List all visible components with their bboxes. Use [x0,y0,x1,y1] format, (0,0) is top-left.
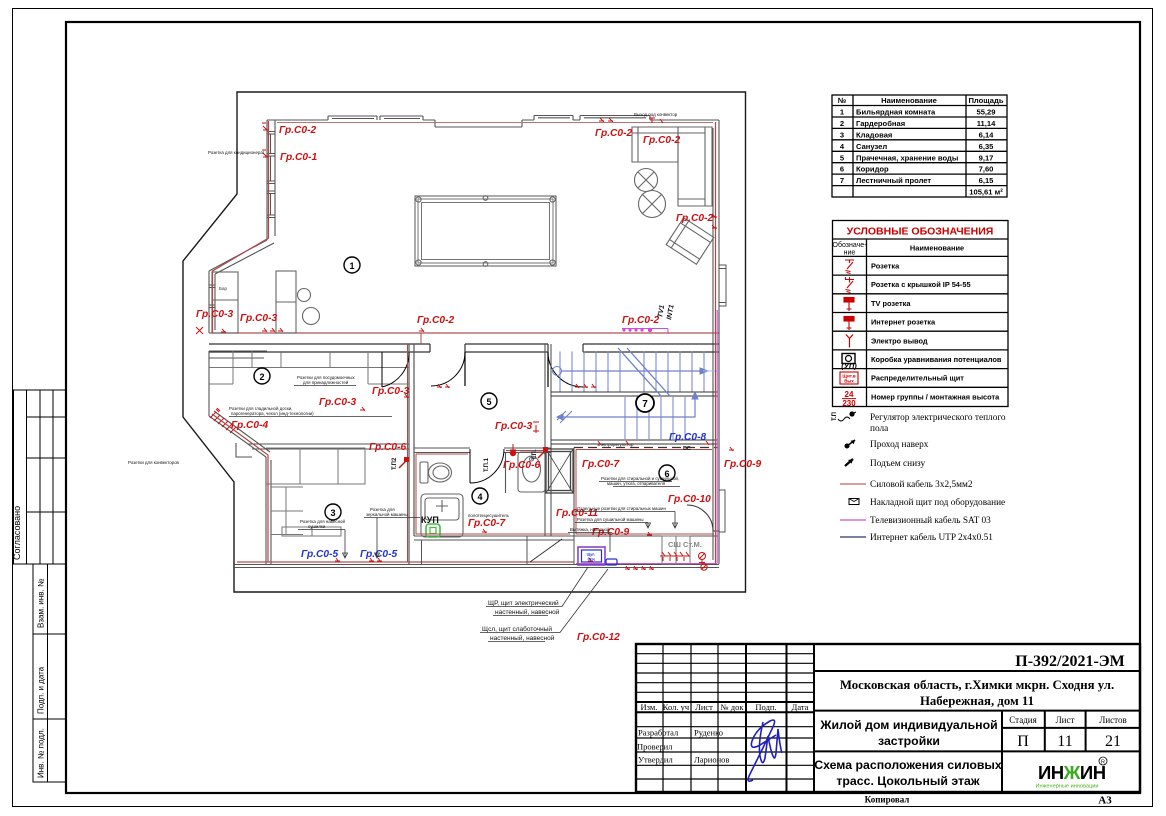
svg-text:Санузел: Санузел [856,142,887,151]
svg-text:9,17: 9,17 [979,153,994,162]
svg-text:Т.П: Т.П [832,412,838,421]
svg-text:№: № [838,96,846,105]
red group labels [196,125,761,643]
svg-text:Гр.С0-10: Гр.С0-10 [668,494,711,505]
annotation underlines [229,386,680,559]
stairs upper flight [553,348,718,396]
svg-text:1: 1 [349,261,354,271]
TP2 regulator hall [392,457,409,470]
svg-text:Проход наверх: Проход наверх [870,440,929,450]
door hall-bathroom [470,449,504,483]
svg-text:Розетка для кондиционера!: Розетка для кондиционера! [208,150,264,155]
red ticks under machines [625,566,654,570]
symbol socket IP54 [845,277,854,293]
svg-text:ИНЖИН: ИНЖИН [1038,762,1106,783]
svg-text:6,15: 6,15 [979,176,995,185]
svg-text:Гр.С0-6: Гр.С0-6 [503,460,540,471]
bath [518,452,545,492]
svg-text:зеркальной машины: зеркальной машины [366,512,408,517]
arrow rise icon [845,459,853,466]
svg-text:для принадлежностей: для принадлежностей [303,380,349,385]
red cable bathroom [416,451,570,535]
red cable corridor6 [576,450,714,535]
hallway door leaf [530,539,562,562]
svg-text:6,35: 6,35 [979,142,995,151]
svg-text:Гр.С0-2: Гр.С0-2 [595,128,632,139]
svg-text:Распределительный щит: Распределительный щит [871,374,964,383]
svg-text:настенный, навесной: настенный, навесной [495,608,560,616]
svg-text:Розетка для сушильной машины: Розетка для сушильной машины [577,517,644,522]
door billiard-stairs [548,352,583,387]
regulator icon [832,411,856,421]
svg-text:Коробка уравнивания потенциало: Коробка уравнивания потенциалов [871,355,1002,364]
room3 shelving [266,448,365,536]
stairs lower flight [557,392,698,439]
svg-text:Розетка с крышкой IP 54-55: Розетка с крышкой IP 54-55 [871,280,971,289]
svg-text:230: 230 [842,399,856,408]
svg-text:Вытяжка, навесной: Вытяжка, навесной [570,527,610,532]
symbol electro out [846,335,853,348]
svg-text:Силовой кабель 3х2,5мм2: Силовой кабель 3х2,5мм2 [870,479,973,490]
red cable wall rooms23-hall [407,344,409,562]
door hall-room2 [382,352,409,387]
svg-text:Щсл, щит слаботочный: Щсл, щит слаботочный [482,625,552,633]
svg-text:парогенератора, чехол (инд-тех: парогенератора, чехол (инд-технологии) [231,411,314,416]
sublegend [870,413,1006,543]
svg-text:Кол. уч: Кол. уч [663,702,690,712]
svg-text:Обозначе-: Обозначе- [833,241,868,249]
symbol internet socket [844,317,854,331]
svg-text:Гр.С0-12: Гр.С0-12 [577,632,620,643]
svg-text:Т.П.1: Т.П.1 [484,457,490,472]
red cable vert from billiard bottom [420,333,422,344]
svg-text:трасс. Цокольный этаж: трасс. Цокольный этаж [836,774,979,788]
bathroom bottom wall [414,536,718,540]
svg-text:Инв. № подл.: Инв. № подл. [37,728,46,778]
room2 diagonal wall [209,411,270,457]
svg-text:7: 7 [642,399,648,410]
svg-text:Гр.С0-2: Гр.С0-2 [676,213,713,224]
svg-text:Гр.С0-2: Гр.С0-2 [417,315,454,326]
wall hall-bathroom2 [545,344,551,536]
svg-text:ЩР, щит электрический: ЩР, щит электрический [488,599,559,607]
svg-text:Гр.С0-3: Гр.С0-3 [196,309,233,320]
room3 circle [325,504,341,520]
round table 1 [635,169,658,192]
svg-text:П-392/2021-ЭМ: П-392/2021-ЭМ [1015,653,1125,670]
svg-text:Гр.С0-9: Гр.С0-9 [724,459,761,470]
svg-text:Номер группы / монтажная высот: Номер группы / монтажная высота [871,392,1000,401]
svg-text:Коридор: Коридор [856,165,889,174]
blue group labels [301,432,706,560]
svg-text:Листов: Листов [1099,715,1126,725]
room3 left wall [266,457,271,565]
building bottom wall [234,562,719,568]
logo INZHIN [1036,757,1107,790]
svg-text:Гр.С0-2: Гр.С0-2 [643,135,680,146]
KUP green box [421,515,440,537]
cupboard [276,271,296,333]
room2 bottom wall [248,444,409,449]
svg-text:Схема расположения силовых: Схема расположения силовых [814,758,1002,772]
svg-text:5: 5 [840,153,845,162]
red cable right wall [715,122,717,563]
bay diagonal wall [209,240,274,274]
svg-text:Регулятор электрического тепло: Регулятор электрического теплого [870,413,1006,423]
billiard top wall [267,116,719,128]
svg-text:Ларионов: Ларионов [694,755,729,765]
socket strip SSh [660,552,690,561]
svg-text:А3: А3 [1098,795,1112,807]
mount board icon [849,499,859,505]
svg-text:Руденко: Руденко [694,728,723,738]
sofa L [632,127,712,206]
svg-text:Выход под конвектор: Выход под конвектор [634,112,678,117]
TV1 INT1 vertical [657,304,676,320]
svg-text:Щуп.: Щуп. [587,553,596,557]
symbol group number [842,390,856,408]
red cable top wall [277,122,713,124]
svg-text:5: 5 [486,397,491,407]
svg-text:Инженерные инновации: Инженерные инновации [1036,784,1099,790]
billiard right wall [713,120,719,564]
building outer contour [183,92,746,592]
magenta tv dots [622,328,652,332]
svg-text:3: 3 [330,508,335,518]
magenta cable right wall [576,310,717,564]
svg-text:Телевизионный кабель SAT 03: Телевизионный кабель SAT 03 [870,515,991,526]
svg-text:пола: пола [870,424,888,434]
red slash circle [701,564,707,570]
navy cable right wall [718,312,720,561]
svg-text:Электро вывод: Электро вывод [871,336,928,345]
svg-text:6: 6 [840,165,844,174]
svg-text:Согласовано: Согласовано [12,506,22,560]
TP2 regulator room6 [532,447,548,460]
symbol TV socket [844,298,854,312]
svg-text:П: П [1017,733,1029,750]
svg-text:ВС: ВС [683,446,691,452]
svg-text:INT1: INT1 [666,304,676,320]
svg-text:(УП): (УП) [841,362,857,371]
svg-text:Площадь: Площадь [968,96,1003,105]
right niche [719,490,725,532]
signature [748,720,782,781]
svg-text:4: 4 [840,142,845,151]
tv cable swatch [840,519,866,521]
svg-text:Интернет розетка: Интернет розетка [871,318,936,327]
svg-text:Гр.С0-8: Гр.С0-8 [669,432,706,443]
room3 wall notch [236,443,252,457]
right wall door arc room6 [687,505,719,531]
red dot hall [510,450,516,456]
svg-text:1: 1 [840,108,845,117]
svg-text:№ док: № док [721,702,745,712]
svg-text:Утвердил: Утвердил [638,755,673,765]
svg-text:ние: ние [844,250,856,257]
svg-text:Гр.С0-3: Гр.С0-3 [240,313,277,324]
svg-text:застройки: застройки [878,734,940,748]
symbol distrib board [840,372,858,384]
wall rooms23-hall [409,344,414,565]
svg-text:Прачечная, хранение воды: Прачечная, хранение воды [856,153,958,162]
svg-text:Подп.: Подп. [755,702,776,712]
svg-text:Гр.С0-4: Гр.С0-4 [231,420,268,431]
svg-text:полотенцесушитель: полотенцесушитель [468,513,510,518]
svg-text:Эт.ц: Эт.ц [587,557,595,561]
bottom panel leader texts [482,599,560,642]
panel small box [606,559,617,565]
svg-text:Гр.С0-3: Гр.С0-3 [372,386,409,397]
red cable left wall [213,121,269,333]
stairwell walls [551,392,718,396]
svg-text:Отдельные розетки для стиральн: Отдельные розетки для стиральных машин [577,506,666,511]
stool 1 [298,289,311,302]
room4 circle [472,488,488,504]
wall bathroom-bathniche [505,452,507,493]
svg-text:Лист: Лист [1056,715,1075,725]
svg-text:R: R [1101,760,1105,766]
bathroom top wall [414,448,551,453]
svg-text:Розетки для конвекторов: Розетки для конвекторов [128,460,180,465]
internet cable swatch [840,536,866,538]
TITLEBLOCK [636,644,1140,807]
svg-text:Т.П2: Т.П2 [392,457,398,470]
svg-text:Стадия: Стадия [1009,715,1036,725]
round table 2 [639,191,666,218]
FLOORPLAN [128,92,761,643]
door billiard-hall [431,352,465,386]
room2 left wall [209,351,267,416]
arrow up icon [845,440,855,448]
svg-text:2: 2 [259,372,264,382]
svg-text:24: 24 [845,390,854,399]
svg-text:Гр.С0-2: Гр.С0-2 [279,125,316,136]
svg-text:настенный, навесной: настенный, навесной [490,634,555,642]
socket ticks [196,118,734,562]
svg-text:2: 2 [840,119,844,128]
svg-text:Гардеробная: Гардеробная [856,119,905,128]
svg-text:11,14: 11,14 [977,119,996,128]
svg-text:Гр.С0-3: Гр.С0-3 [319,397,356,408]
red hatch Gr.C0-4 [210,408,236,433]
svg-text:СШ Ст.М.: СШ Ст.М. [668,540,702,549]
svg-text:Копировал: Копировал [865,795,910,805]
room6 circle [659,465,675,481]
power cable swatch [840,483,866,485]
shower [546,449,573,493]
svg-text:Гр.С0-6: Гр.С0-6 [369,442,406,453]
svg-text:Гр.С0-7: Гр.С0-7 [582,459,620,470]
room1 circle [344,257,360,273]
LEGEND [832,221,1008,544]
red vent symbol [699,553,706,564]
svg-text:7: 7 [840,176,844,185]
svg-text:Наименование: Наименование [910,244,964,253]
svg-text:Жилой дом индивидуальной: Жилой дом индивидуальной [819,718,997,732]
room7 circle [636,394,654,412]
annotation texts [128,112,679,532]
svg-text:электрорегулятор: электрорегулятор [597,442,634,447]
svg-text:Проверил: Проверил [637,742,673,752]
svg-text:Набережная, дом 11: Набережная, дом 11 [920,694,1034,708]
svg-text:Гр.С0-3: Гр.С0-3 [495,421,532,432]
svg-text:TV розетка: TV розетка [871,299,911,308]
svg-text:Кладовая: Кладовая [856,130,892,139]
svg-text:Т.П.: Т.П. [532,449,538,460]
toilet [420,462,452,483]
bar counter [212,272,238,333]
svg-text:Московская область, г.Химки м: Московская область, г.Химки мкрн. Сходня… [840,678,1114,692]
red cable room2 diagonal [212,414,268,562]
corridor6 top dashed wall [574,447,718,449]
billiard table [415,196,556,267]
wardrobe shelving top [209,351,409,384]
svg-text:Подп. и дата: Подп. и дата [37,666,46,714]
panel Shchsl blue box [578,547,605,565]
svg-text:сушилки: сушилки [308,524,326,529]
svg-text:КУП: КУП [421,515,439,525]
washing machines [662,536,690,564]
svg-text:TV1: TV1 [657,304,666,318]
svg-text:105,61 м²: 105,61 м² [969,188,1003,197]
bay left wall [209,271,215,333]
svg-text:Гр.С0-1: Гр.С0-1 [280,152,317,163]
symbol socket [845,260,854,274]
right window [719,265,726,306]
svg-text:3: 3 [840,130,844,139]
armchair [666,218,714,264]
svg-text:Накладной щит под оборудование: Накладной щит под оборудование [870,497,1005,508]
svg-text:11: 11 [1057,733,1072,750]
svg-text:Бильярдная комната: Бильярдная комната [856,108,936,117]
svg-text:7,60: 7,60 [979,165,994,174]
svg-text:Вых: Вых [844,379,854,384]
svg-text:55,29: 55,29 [976,108,995,117]
hallway band dividers [422,536,575,564]
svg-text:Гр.С0-5: Гр.С0-5 [301,549,338,560]
billiard bottom wall [209,333,719,352]
LEFTSTAMPS [14,390,67,782]
svg-text:21: 21 [1105,733,1121,750]
room2 circle [254,368,270,384]
ROOMTABLE [832,95,1007,197]
svg-text:Изм.: Изм. [641,702,658,712]
svg-text:Бар: Бар [219,286,227,291]
svg-text:Разработал: Разработал [638,728,679,738]
svg-text:Подъем снизу: Подъем снизу [870,459,926,469]
room5 circle [481,393,497,409]
svg-text:Дата: Дата [792,702,809,712]
svg-text:Интернет кабель UTP 2x4x0.51: Интернет кабель UTP 2x4x0.51 [870,532,993,543]
svg-text:УСЛОВНЫЕ ОБОЗНАЧЕНИЯ: УСЛОВНЫЕ ОБОЗНАЧЕНИЯ [847,226,994,238]
svg-text:Лист: Лист [695,702,713,712]
svg-text:Гр.С0-7: Гр.С0-7 [468,518,506,529]
svg-text:4: 4 [477,492,482,502]
billiard left wall [267,120,275,240]
svg-text:Наименование: Наименование [881,96,937,105]
sink counter [421,494,463,537]
svg-text:6,14: 6,14 [979,130,995,139]
stool 2 [303,308,320,325]
svg-text:Гр.С0-2: Гр.С0-2 [622,315,659,326]
svg-text:Розетка: Розетка [871,262,900,271]
red socket Gr06 [510,444,516,453]
svg-text:Лестничный пролет: Лестничный пролет [856,176,931,185]
symbol KUP [841,354,857,371]
svg-text:Взам. инв. №: Взам. инв. № [37,578,46,628]
magenta cable top billiard [622,329,668,335]
